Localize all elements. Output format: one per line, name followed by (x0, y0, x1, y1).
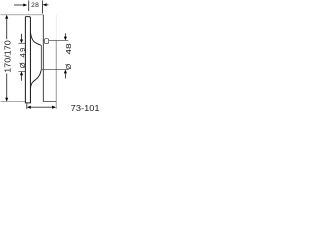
svg-text:Ø: Ø (64, 64, 73, 70)
svg-text:73-101: 73-101 (71, 104, 100, 113)
svg-text:48: 48 (64, 43, 73, 54)
svg-text:8: 8 (35, 2, 39, 9)
svg-text:170/170: 170/170 (4, 40, 13, 73)
